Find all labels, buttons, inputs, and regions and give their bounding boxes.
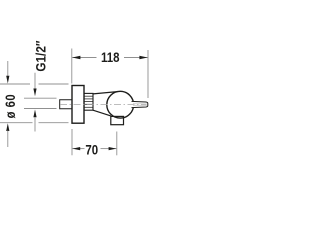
- node: G1/2 down arrow: [33, 89, 36, 97]
- wire: dimension 70 right extension line: [116, 132, 118, 156]
- node: G1/2 up arrow: [33, 110, 36, 118]
- component: outlet port below body: [111, 116, 124, 124]
- svg-text:118: 118: [101, 49, 120, 65]
- node: dia60 down arrow: [6, 76, 9, 84]
- wire: dia60 lower dimension line: [7, 131, 9, 148]
- node: arrow left of 118: [72, 56, 80, 60]
- component: wall escutcheon flange: [72, 86, 84, 124]
- wire: dia60 bottom extension line right segment: [39, 122, 69, 124]
- node: arrow right of 118: [139, 56, 147, 60]
- component: nut rib line 5: [84, 106, 92, 108]
- wire: dia60 top extension line right segment: [39, 83, 69, 85]
- wire: dimension 118 line left segment: [72, 57, 96, 59]
- svg-text:70: 70: [85, 141, 98, 157]
- component: cone body bottom edge: [93, 110, 111, 116]
- wire: dimension 70 left extension line: [71, 129, 73, 155]
- wire: dia60 upper dimension line: [7, 61, 9, 77]
- component: nut rib line 4: [84, 103, 92, 105]
- wire: dia60 bottom extension line left segment: [0, 122, 33, 124]
- component: ribbed union nut: [84, 93, 93, 110]
- wire: G1/2 leader line lower: [34, 117, 36, 132]
- wire: dimension 70 line right segment: [101, 148, 117, 150]
- component: lever handle white fill: [132, 101, 148, 107]
- component: lever grip shading line 1: [133, 103, 147, 105]
- wire: dia60 top extension line left segment: [0, 83, 30, 85]
- svg-text:G1/2″: G1/2″: [32, 41, 48, 72]
- node: dia60 up arrow: [6, 123, 9, 131]
- component: cone body top edge: [93, 92, 118, 94]
- wire: dimension 118 left extension line: [71, 49, 73, 84]
- wire: dimension 118 line right segment: [124, 57, 148, 59]
- wire: pipe bottom extension line: [24, 108, 57, 110]
- component: body circle (mixer cartridge housing): [107, 91, 134, 118]
- wire: dimension 118 right extension line: [147, 50, 149, 98]
- component: lever handle outline: [132, 101, 148, 107]
- wire: centerline dash-dot axis: [60, 104, 147, 106]
- svg-text:ø 60: ø 60: [3, 94, 18, 119]
- component: nut rib line 1: [84, 95, 92, 97]
- component: nut rib line 3: [84, 101, 92, 103]
- node: arrow right of 70: [109, 147, 117, 150]
- component: nut rib line 2: [84, 98, 92, 100]
- wire: G1/2 leader line upper: [34, 73, 36, 89]
- wire: dimension 70 line left segment: [72, 148, 84, 150]
- component: lever grip shading line 2: [133, 104, 147, 106]
- component: wall supply pipe: [60, 100, 72, 109]
- node: arrow left of 70: [72, 147, 80, 150]
- wire: pipe top extension line: [24, 97, 57, 99]
